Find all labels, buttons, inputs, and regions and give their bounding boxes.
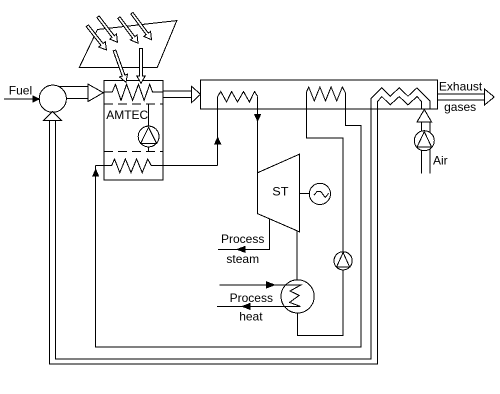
air preheater inner zigzag bbox=[377, 97, 421, 109]
process heat exchanger HX1 bbox=[281, 280, 314, 313]
air inlet arrow into duct bbox=[417, 110, 432, 123]
loop A (condensate return) bbox=[96, 93, 361, 348]
HX internal coil and process lines bbox=[217, 285, 301, 307]
generator shaft bbox=[299, 193, 309, 195]
svg-text:gases: gases bbox=[444, 100, 476, 114]
steam line to turbine bbox=[257, 96, 259, 172]
svg-text:Fuel: Fuel bbox=[9, 84, 32, 98]
recirculation duct outer line (loop C) bbox=[50, 109, 378, 364]
steam loop: AMTEC bottom HX leads bbox=[96, 164, 218, 166]
radiation arrow 4 bbox=[131, 12, 152, 39]
dashed separator upper bbox=[104, 103, 163, 105]
feedwater line pump to zigzag2 bbox=[298, 93, 344, 336]
arrow left process heat out bbox=[242, 303, 250, 309]
steam turbine ST bbox=[258, 154, 300, 232]
riser AMTEC HX to boiler zigzag bbox=[217, 96, 219, 165]
turbine exhaust to process heat HX bbox=[296, 231, 298, 280]
wire pump to separator lower bbox=[148, 147, 150, 152]
svg-text:heat: heat bbox=[239, 310, 263, 324]
hollow arrow AMTEC to duct bbox=[163, 91, 192, 98]
svg-text:Process: Process bbox=[221, 232, 264, 246]
air preheater outer zigzag bbox=[371, 88, 430, 109]
fuel inlet wire bbox=[4, 98, 34, 100]
arrow up on riser bbox=[215, 138, 221, 145]
svg-text:AMTEC: AMTEC bbox=[106, 108, 148, 122]
generator G1 bbox=[309, 183, 330, 204]
dashed separator lower bbox=[104, 151, 163, 153]
arrow down to turbine bbox=[255, 115, 261, 122]
svg-text:ST: ST bbox=[272, 185, 289, 199]
flue duct combustor to AMTEC (hollow arrow) bbox=[59, 87, 88, 99]
svg-text:Process: Process bbox=[230, 291, 273, 305]
exhaust arrow bbox=[438, 94, 485, 100]
economizer zigzag 2 in duct bbox=[306, 87, 345, 101]
svg-text:Exhaust: Exhaust bbox=[439, 80, 483, 94]
recirculation duct inner line (loop B) bbox=[56, 109, 372, 359]
heat arrow plate-to-AMTEC right bbox=[137, 49, 145, 84]
exhaust gas duct bbox=[201, 80, 438, 109]
pump P2 (feedwater) bbox=[334, 252, 352, 270]
wire pump to separator bbox=[148, 104, 150, 126]
AMTEC top heat exchanger zigzag bbox=[104, 84, 163, 100]
combustor B1 bbox=[39, 85, 66, 112]
air fan F1 bbox=[414, 131, 434, 151]
arrow up into AMTEC bottom HX bbox=[93, 170, 99, 177]
air inlet duct bbox=[422, 149, 431, 174]
AMTEC box bbox=[104, 81, 163, 181]
preheated air arrow into combustor bbox=[44, 112, 62, 121]
boiler zigzag 1 in duct bbox=[218, 92, 258, 103]
solar collector plate bbox=[79, 21, 177, 68]
svg-text:steam: steam bbox=[226, 252, 259, 266]
arrow left process steam bbox=[237, 247, 245, 253]
fuel arrowhead bbox=[33, 96, 39, 102]
process steam extraction wire bbox=[218, 219, 269, 250]
heat arrow plate-to-AMTEC left bbox=[113, 50, 127, 82]
radiation arrow 3 bbox=[118, 17, 138, 43]
AMTEC bottom heat exchanger zigzag bbox=[112, 159, 151, 173]
svg-text:Air: Air bbox=[433, 154, 448, 168]
radiation arrow 2 bbox=[97, 16, 118, 42]
radiation arrow 1 bbox=[86, 25, 106, 50]
pump P1 (AMTEC internal) bbox=[138, 126, 159, 147]
arrow right process heat in bbox=[267, 282, 275, 288]
